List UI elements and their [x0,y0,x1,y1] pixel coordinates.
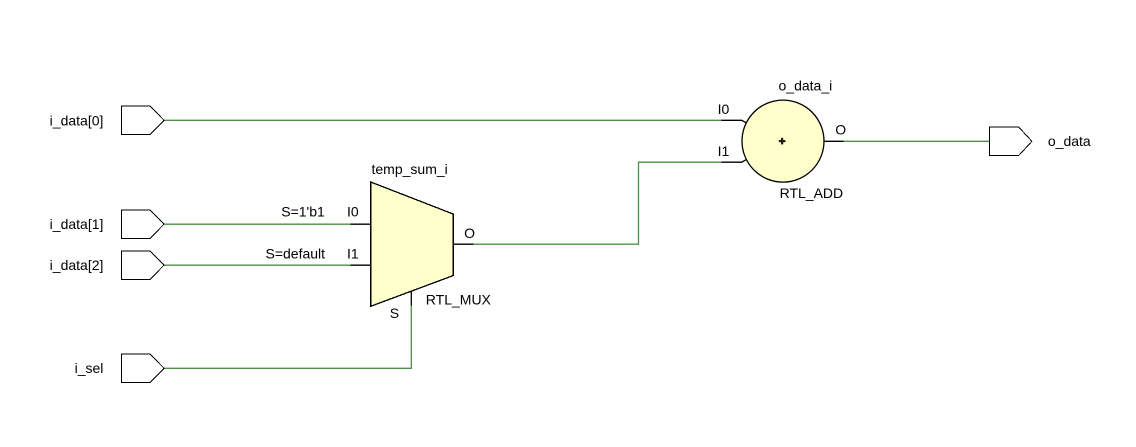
svg-text:I1: I1 [347,246,359,262]
svg-text:O: O [464,225,475,241]
svg-text:RTL_MUX: RTL_MUX [426,291,492,307]
svg-text:S=1'b1: S=1'b1 [281,204,325,220]
svg-text:o_data: o_data [1048,133,1091,149]
svg-text:i_data[0]: i_data[0] [50,112,104,128]
svg-text:I0: I0 [347,204,359,220]
svg-text:RTL_ADD: RTL_ADD [780,185,844,201]
svg-text:O: O [835,122,846,138]
svg-text:i_data[2]: i_data[2] [50,257,104,273]
svg-text:i_data[1]: i_data[1] [50,216,104,232]
svg-text:S=default: S=default [265,246,325,262]
svg-text:I1: I1 [718,143,730,159]
svg-text:o_data_i: o_data_i [779,78,833,94]
svg-text:S: S [390,305,399,321]
svg-text:i_sel: i_sel [75,360,104,376]
svg-text:temp_sum_i: temp_sum_i [372,161,448,177]
svg-text:I0: I0 [718,101,730,117]
